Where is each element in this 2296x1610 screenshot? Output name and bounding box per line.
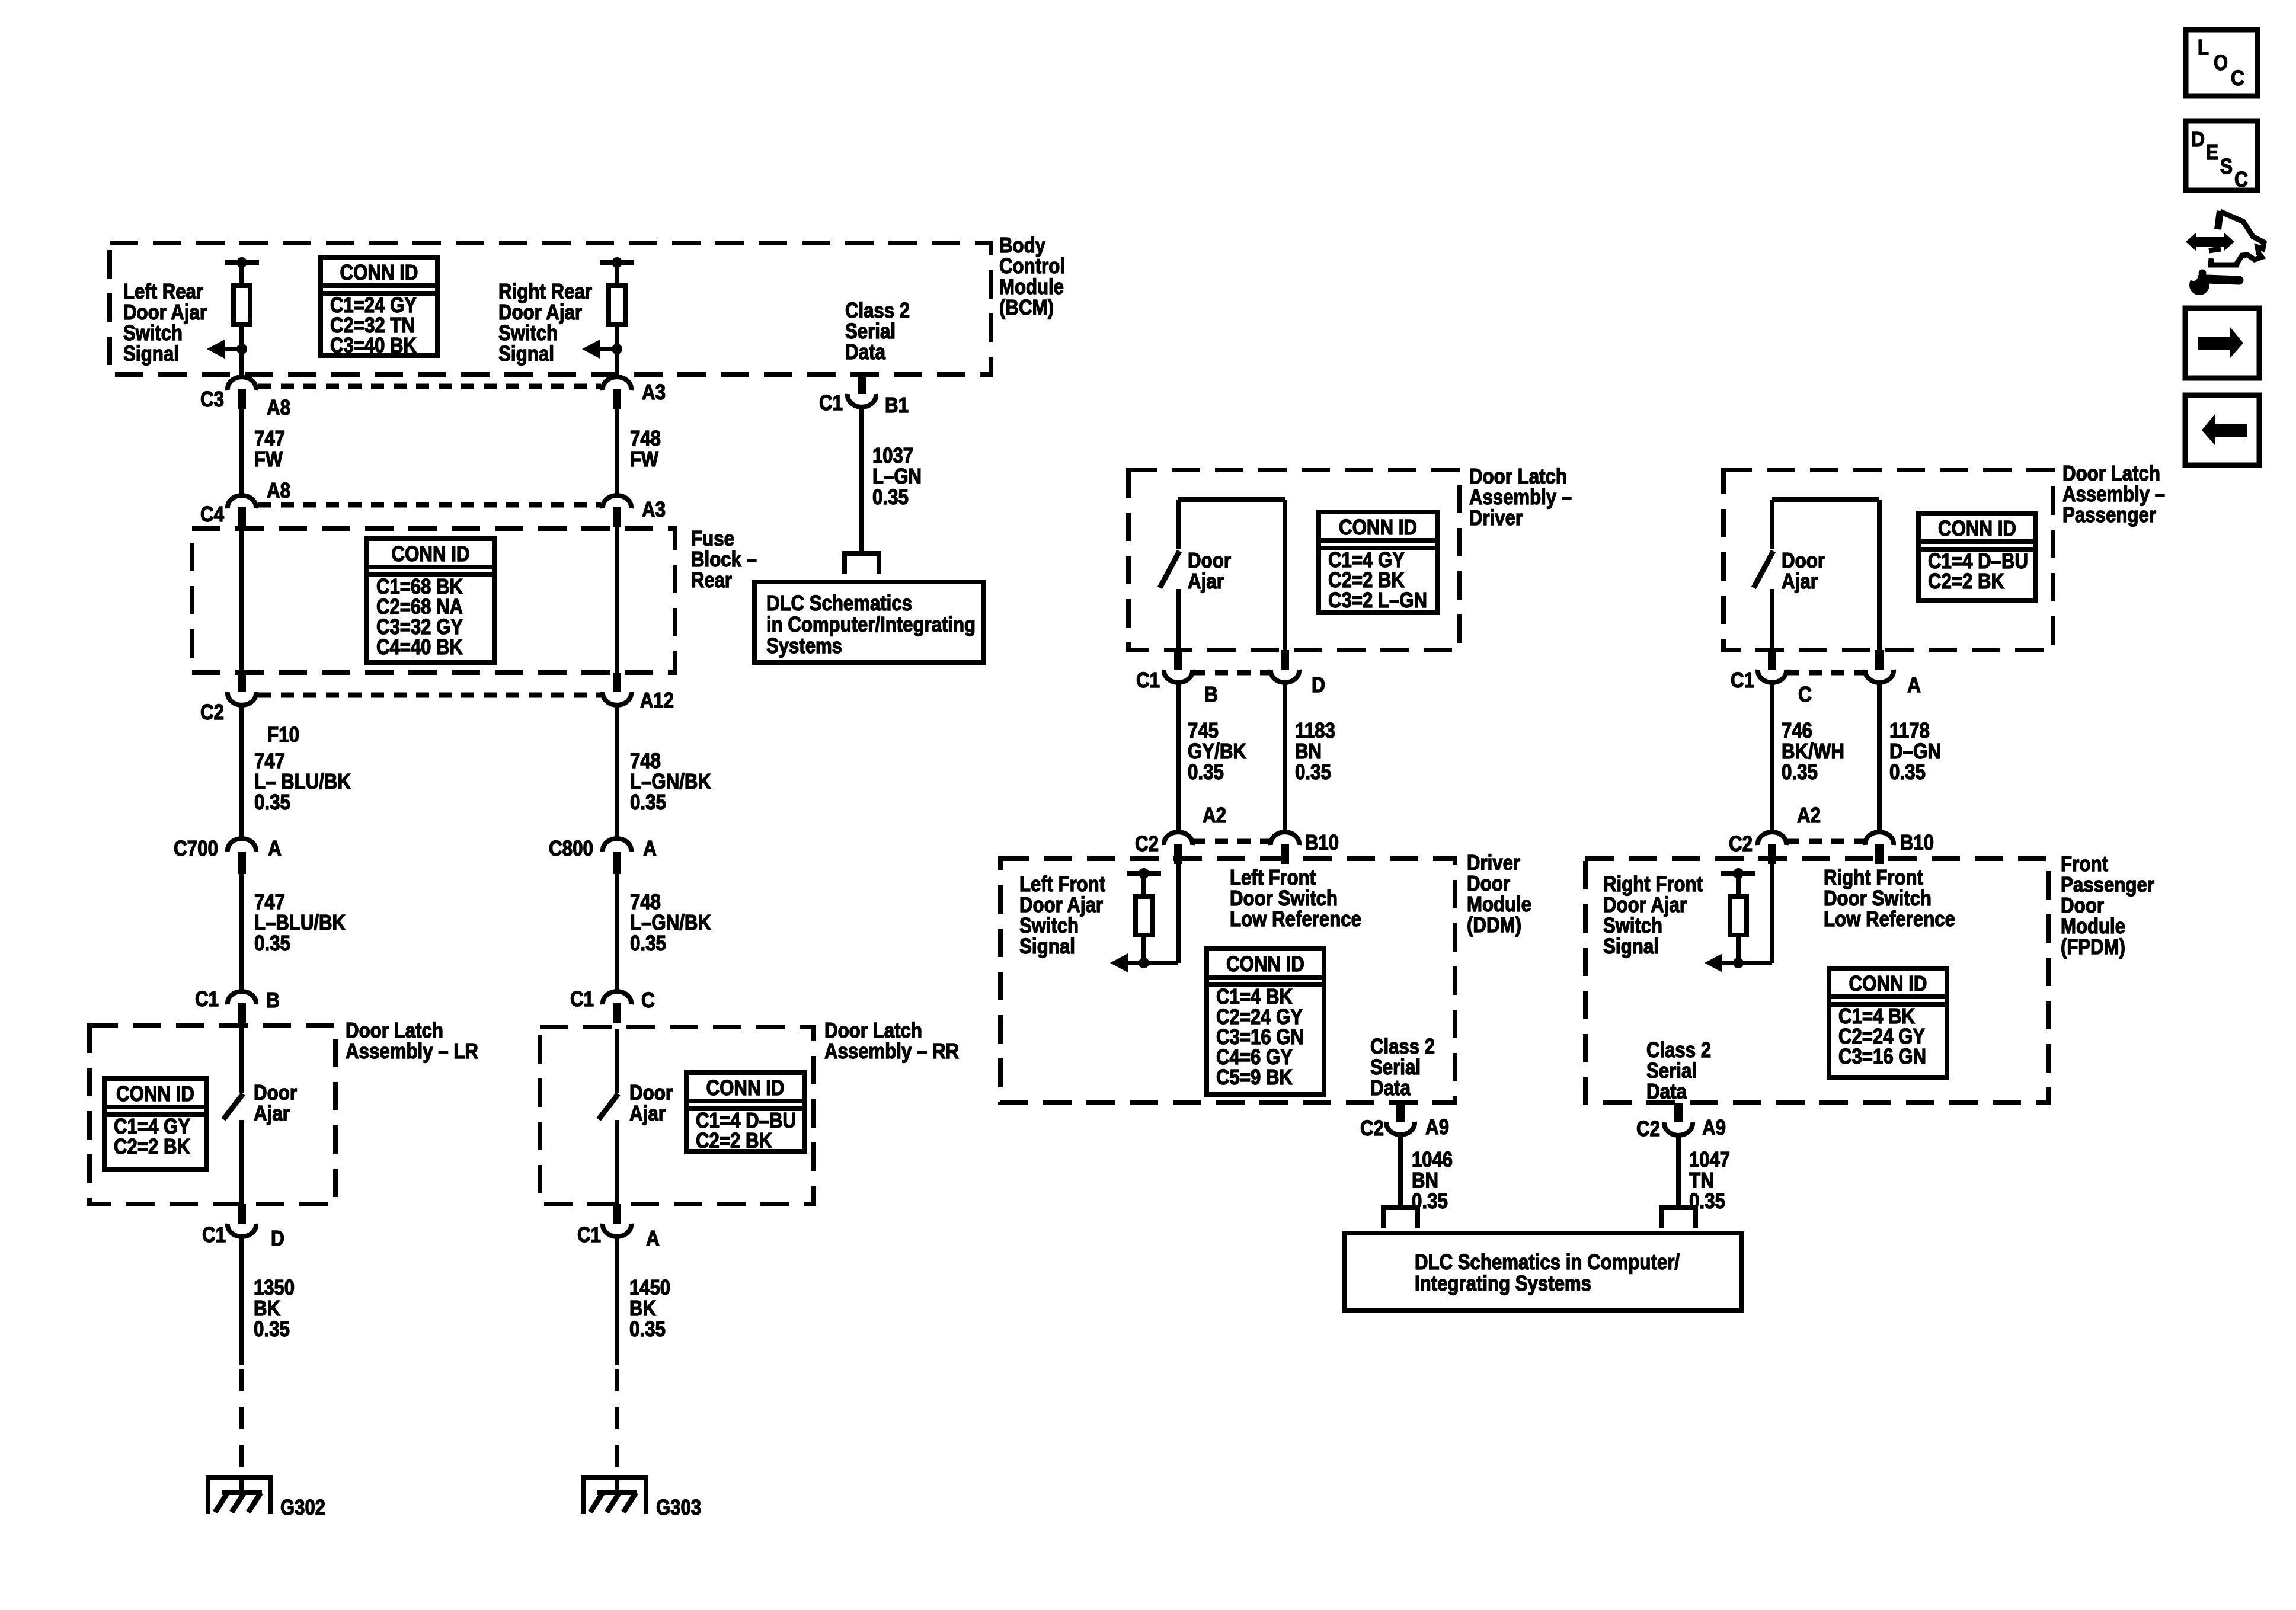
svg-text:CONN ID: CONN ID [392, 542, 470, 566]
pin label A (C700) [268, 836, 282, 860]
svg-text:Signal: Signal [1019, 934, 1075, 958]
svg-text:Assembly – LR: Assembly – LR [346, 1039, 478, 1063]
wire label 748 L-GN/BK 0.35 upper [630, 748, 711, 814]
pin label C2 (DDM class 2) [1360, 1116, 1384, 1140]
svg-text:C700: C700 [174, 836, 218, 860]
connector interface line latch driver C1 [1192, 670, 1271, 676]
connector interface line latch passenger C1 [1786, 670, 1865, 676]
pin label C2 (DDM) [1135, 831, 1159, 856]
svg-text:Low Reference: Low Reference [1824, 907, 1955, 931]
wire through fuse block left F10 [239, 527, 244, 673]
svg-text:C2: C2 [1636, 1116, 1660, 1141]
label Door Ajar (driver) [1188, 548, 1231, 593]
connector pin B10 (FPDM) [1865, 832, 1894, 864]
svg-text:A3: A3 [642, 380, 666, 404]
label Class 2 Serial Data (BCM) [845, 298, 910, 364]
svg-text:C3: C3 [200, 387, 224, 411]
resistor left front door ajar switch pull-up (DDM) [1127, 868, 1161, 968]
wire 748 FW segment [615, 409, 619, 495]
pin label B10 (DDM) [1305, 830, 1339, 854]
svg-text:A2: A2 [1797, 803, 1821, 827]
wire label 1037 L-GN 0.35 [872, 443, 922, 509]
pin label C2 (FPDM class 2) [1636, 1116, 1660, 1141]
svg-text:C2=2 BK: C2=2 BK [696, 1128, 772, 1153]
pin label A9 (DDM) [1425, 1115, 1449, 1139]
connector C3 (BCM) pin A8 [228, 377, 256, 409]
module box Body Control Module (BCM) [110, 243, 991, 375]
wire DDM internal junction to main [1144, 961, 1178, 965]
pin label C1 (latch LR) [195, 987, 219, 1011]
pin label A8 (BCM C3) [267, 395, 290, 420]
wire label 1178 D-GN 0.35 [1889, 718, 1941, 784]
svg-text:0.35: 0.35 [1782, 760, 1818, 784]
pin label A (latch RR) [646, 1226, 660, 1250]
connector A12 (fuse block) [603, 673, 631, 705]
wire label 748 FW [630, 426, 661, 471]
pin label D (latch driver) [1312, 673, 1325, 697]
wire label 1046 BN 0.35 [1412, 1147, 1453, 1213]
svg-text:C1: C1 [202, 1222, 226, 1247]
pin label C1 (latch RR bottom) [577, 1222, 601, 1247]
module box Driver Door Module (DDM) [1000, 859, 1455, 1102]
pin label F10 [267, 722, 299, 747]
pin label C (latch RR) [641, 988, 655, 1012]
svg-text:C3=16 GN: C3=16 GN [1838, 1044, 1926, 1068]
svg-text:C2: C2 [1360, 1116, 1384, 1140]
svg-text:Driver: Driver [1469, 505, 1523, 530]
connector A3 (BCM) [603, 377, 631, 409]
wire 748 L-GN/BK segment upper [615, 705, 619, 838]
svg-text:A12: A12 [640, 688, 674, 712]
connector C1 (latch LR bottom) pin D [228, 1204, 256, 1237]
svg-text:DLC Schematics in Computer/: DLC Schematics in Computer/ [1415, 1250, 1680, 1274]
wire label 1350 BK 0.35 [254, 1275, 295, 1341]
wire latch driver left to switch [1176, 500, 1181, 549]
wire label 1183 BN 0.35 [1295, 718, 1335, 784]
wire 1350 BK segment [239, 1237, 244, 1365]
wire label 1450 BK 0.35 [629, 1275, 670, 1341]
wire latch passenger right to pin A [1877, 500, 1882, 650]
svg-text:C1: C1 [577, 1222, 601, 1247]
svg-text:O: O [2214, 50, 2228, 75]
svg-text:CONN ID: CONN ID [1849, 971, 1927, 996]
wire label 747 FW [254, 426, 285, 471]
pin label A9 (FPDM) [1702, 1115, 1726, 1140]
pin label B (latch LR) [266, 988, 280, 1012]
label Right Front Door Ajar Switch Signal [1603, 872, 1703, 958]
wire 1183 BN segment [1283, 683, 1287, 832]
svg-text:0.35: 0.35 [1295, 760, 1331, 784]
svg-text:B1: B1 [885, 393, 909, 417]
box DLC Schematics in Computer/Integrating Systems (right) [1345, 1233, 1742, 1310]
label Front Passenger Door Module (FPDM) [2061, 852, 2154, 959]
svg-text:Ajar: Ajar [254, 1101, 290, 1125]
svg-text:C2: C2 [1135, 831, 1159, 856]
label Door Ajar (passenger) [1782, 548, 1825, 593]
svg-text:C1: C1 [1136, 668, 1160, 692]
svg-text:Data: Data [1646, 1079, 1687, 1103]
svg-text:C800: C800 [549, 836, 593, 860]
icon DESC box [2186, 121, 2257, 191]
resistor right rear door ajar switch pull-up (BCM) [600, 257, 634, 354]
pin label D [271, 1226, 284, 1250]
svg-text:C1: C1 [819, 391, 843, 415]
svg-text:C: C [641, 988, 655, 1012]
in-line connector C700 pin A [228, 838, 256, 874]
svg-text:Rear: Rear [691, 568, 732, 592]
label Door Latch Assembly - RR [824, 1018, 959, 1063]
connector C1 (latch RR bottom) pin A [603, 1204, 631, 1237]
svg-text:Assembly – RR: Assembly – RR [824, 1039, 959, 1063]
svg-text:C1: C1 [570, 987, 594, 1011]
svg-text:FW: FW [630, 447, 658, 471]
wire latch driver internal top [1178, 497, 1285, 502]
label Fuse Block - Rear [691, 526, 757, 592]
signal arrow left rear door ajar switch signal [207, 340, 242, 359]
connector pin A (latch passenger) [1865, 650, 1894, 683]
svg-text:Ajar: Ajar [1782, 569, 1818, 593]
svg-text:A: A [646, 1226, 660, 1250]
svg-text:in Computer/Integrating: in Computer/Integrating [766, 612, 976, 636]
pin label A2 (DDM) [1203, 803, 1226, 827]
svg-text:B10: B10 [1305, 830, 1339, 854]
label Door Latch Assembly - LR [346, 1018, 478, 1063]
svg-text:A: A [643, 836, 657, 860]
wire BCM internal to pin A3 [615, 349, 619, 377]
connector C1 (latch passenger) pin C [1758, 650, 1786, 683]
wire label 1047 TN 0.35 [1689, 1147, 1730, 1213]
svg-text:0.35: 0.35 [630, 790, 666, 814]
icon right arrow box [2185, 308, 2259, 378]
wire label 746 BK/WH 0.35 [1782, 718, 1844, 784]
svg-text:F10: F10 [267, 722, 299, 747]
svg-text:DLC Schematics: DLC Schematics [766, 591, 912, 615]
wire 1178 D-GN segment [1877, 683, 1882, 832]
svg-text:C5=9 BK: C5=9 BK [1216, 1065, 1293, 1089]
svg-text:C: C [2234, 167, 2248, 191]
label Body Control Module (BCM) [999, 233, 1065, 319]
svg-text:0.35: 0.35 [254, 790, 290, 814]
table CONN ID (latch passenger) [1918, 513, 2036, 600]
connector interface line DDM C2 [1192, 839, 1271, 844]
svg-text:Integrating Systems: Integrating Systems [1415, 1271, 1591, 1295]
pin label A12 [640, 688, 674, 712]
label G303 [656, 1495, 701, 1519]
svg-text:C4: C4 [200, 502, 224, 526]
table CONN ID (latch RR) [686, 1073, 804, 1153]
connector C1 (BCM) pin B1 class 2 serial data [848, 375, 876, 407]
svg-text:CONN ID: CONN ID [1226, 952, 1304, 976]
svg-text:CONN ID: CONN ID [706, 1076, 785, 1100]
icon left arrow box [2185, 395, 2259, 465]
label Class 2 Serial Data (FPDM) [1646, 1038, 1711, 1103]
svg-text:0.35: 0.35 [254, 1317, 290, 1341]
label Right Front Door Switch Low Reference [1824, 865, 1955, 931]
pin label C3 [200, 387, 224, 411]
svg-text:(DDM): (DDM) [1467, 913, 1521, 937]
module box Door Latch Assembly - LR [89, 1025, 335, 1204]
svg-text:(FPDM): (FPDM) [2061, 934, 2125, 959]
connector pin B10 (DDM) [1271, 832, 1299, 864]
ground G303 [581, 1475, 648, 1514]
svg-text:Signal: Signal [1603, 934, 1659, 958]
svg-text:A3: A3 [642, 497, 666, 521]
switch door ajar driver [1160, 551, 1179, 588]
svg-text:0.35: 0.35 [872, 485, 909, 509]
pin label C1 (BCM class 2) [819, 391, 843, 415]
wire latch LR switch to pin D [239, 1120, 244, 1204]
connector interface line C4-A3 fuse block top [258, 502, 601, 508]
label Door Latch Assembly - Driver [1469, 464, 1572, 530]
wire 747 FW segment [239, 409, 244, 495]
label Driver Door Module (DDM) [1467, 850, 1531, 937]
svg-text:C: C [2231, 66, 2244, 90]
label Left Front Door Ajar Switch Signal [1019, 872, 1105, 958]
pin label C1 (latch passenger) [1731, 668, 1754, 692]
svg-text:C2: C2 [200, 700, 224, 724]
svg-text:C2=2 BK: C2=2 BK [114, 1134, 190, 1158]
wire FPDM internal from C2 [1770, 864, 1774, 963]
svg-text:D: D [1312, 673, 1325, 697]
svg-text:C1: C1 [195, 987, 219, 1011]
svg-text:Signal: Signal [123, 341, 179, 366]
module box Fuse Block - Rear [192, 529, 675, 673]
svg-text:A8: A8 [267, 478, 290, 502]
pin label C (latch passenger) [1798, 682, 1812, 706]
svg-text:S: S [2220, 154, 2233, 178]
svg-text:Low Reference: Low Reference [1230, 907, 1361, 931]
wire through fuse block right A12 [615, 527, 619, 673]
svg-text:Ajar: Ajar [629, 1101, 666, 1125]
wire FPDM internal junction to main [1738, 961, 1772, 965]
pin label B (latch driver) [1204, 682, 1218, 706]
pin label C4 [200, 502, 224, 526]
wire latch driver switch to pin B [1176, 589, 1181, 650]
svg-text:D: D [271, 1226, 284, 1250]
svg-text:A8: A8 [267, 395, 290, 420]
svg-text:0.35: 0.35 [254, 931, 290, 955]
pin label C1 (latch RR) [570, 987, 594, 1011]
connector interface line FPDM C2 [1786, 839, 1865, 844]
label Left Front Door Switch Low Reference [1230, 865, 1361, 931]
table CONN ID (DDM) [1207, 949, 1324, 1094]
wire 747 L-BLU/BK segment lower [239, 874, 244, 991]
svg-text:B: B [1204, 682, 1218, 706]
svg-text:C4=40 BK: C4=40 BK [376, 635, 463, 659]
svg-text:Systems: Systems [766, 633, 842, 658]
svg-text:Signal: Signal [498, 341, 554, 366]
svg-text:(BCM): (BCM) [999, 295, 1054, 319]
label Door Latch Assembly - Passenger [2062, 461, 2165, 527]
module box Door Latch Assembly - Passenger [1723, 470, 2053, 650]
pin label A3 (fuse block) [642, 497, 666, 521]
svg-text:A9: A9 [1702, 1115, 1726, 1140]
wire 747 L-BLU/BK segment upper [239, 705, 244, 838]
wire 1046 BN segment [1398, 1135, 1403, 1205]
svg-text:Data: Data [845, 340, 886, 364]
label Left Rear Door Ajar Switch Signal [123, 279, 207, 366]
wire latch RR to switch [615, 1029, 619, 1093]
label G302 [280, 1495, 325, 1519]
svg-text:B: B [266, 988, 280, 1012]
pin label A (C800) [643, 836, 657, 860]
pin label B10 (FPDM) [1900, 830, 1934, 854]
connector C4 (fuse block) pin A8 [228, 495, 256, 527]
svg-text:C2=2 BK: C2=2 BK [1928, 569, 2004, 593]
module box Door Latch Assembly - RR [540, 1027, 814, 1204]
svg-text:CONN ID: CONN ID [340, 260, 418, 284]
svg-text:D: D [2191, 127, 2205, 151]
connector C1 (door latch RR) pin C [603, 991, 631, 1023]
svg-text:G303: G303 [656, 1495, 701, 1519]
connector interface line C2-A12 fuse block bottom [258, 693, 601, 698]
pin label C700 [174, 836, 218, 860]
icon vehicle with wrench [2180, 211, 2264, 295]
wire label 747 L-BLU/BK 0.35 lower [254, 889, 346, 955]
box DLC Schematics in Computer/Integrating Systems (left) [754, 582, 984, 662]
pin label A3 (BCM) [642, 380, 666, 404]
svg-text:C1: C1 [1731, 668, 1754, 692]
wire 748 L-GN/BK segment lower [615, 874, 619, 991]
off-page connector to DLC schematics (DDM) [1381, 1205, 1420, 1228]
table CONN ID (FPDM) [1829, 968, 1947, 1077]
label Right Rear Door Ajar Switch Signal [498, 279, 592, 366]
wire label 747 L-BLU/BK 0.35 upper [254, 748, 351, 814]
connector C2 (DDM) pin A2 [1164, 832, 1192, 864]
wire 745 GY/BK segment [1176, 683, 1181, 832]
pin label C1 (latch driver) [1136, 668, 1160, 692]
svg-text:0.35: 0.35 [629, 1317, 666, 1341]
switch door ajar RR [599, 1094, 618, 1119]
svg-text:CONN ID: CONN ID [116, 1081, 194, 1106]
svg-text:A: A [1907, 673, 1921, 697]
svg-text:CONN ID: CONN ID [1339, 515, 1417, 539]
svg-text:Passenger: Passenger [2062, 502, 2156, 527]
svg-text:C: C [1798, 682, 1812, 706]
wire latch driver right to pin D [1283, 500, 1287, 650]
label Class 2 Serial Data (DDM) [1370, 1034, 1435, 1100]
wire latch passenger left to switch [1770, 500, 1774, 549]
svg-text:A: A [268, 836, 282, 860]
svg-text:FW: FW [254, 447, 283, 471]
svg-text:0.35: 0.35 [630, 931, 666, 955]
svg-text:E: E [2206, 140, 2218, 164]
pin label C800 [549, 836, 593, 860]
svg-text:L: L [2198, 35, 2209, 59]
table CONN ID (fuse block) [367, 539, 494, 662]
svg-text:C3=2 L–GN: C3=2 L–GN [1328, 588, 1427, 612]
wire dashed to ground G303 [615, 1369, 619, 1477]
pin label B1 [885, 393, 909, 417]
signal arrow right front door ajar switch signal [1705, 953, 1738, 972]
svg-text:A9: A9 [1425, 1115, 1449, 1139]
resistor right front door ajar switch pull-up (FPDM) [1721, 868, 1755, 968]
connector C1 (door latch LR) pin B [228, 991, 256, 1023]
module box Front Passenger Door Module (FPDM) [1585, 859, 2049, 1103]
svg-text:Data: Data [1370, 1076, 1411, 1100]
switch door ajar LR [223, 1094, 243, 1119]
pin label C2 (FPDM) [1729, 831, 1753, 856]
table CONN ID (latch LR) [104, 1078, 206, 1169]
wire dashed to ground G302 [239, 1369, 244, 1477]
svg-text:0.35: 0.35 [1188, 760, 1224, 784]
svg-text:B10: B10 [1900, 830, 1934, 854]
table CONN ID (BCM) [321, 257, 437, 357]
svg-text:C3=40 BK: C3=40 BK [330, 333, 417, 357]
wire latch RR switch to pin A [615, 1120, 619, 1204]
off-page connector to DLC schematics (FPDM) [1659, 1205, 1698, 1228]
wire BCM internal to pin C3 [239, 349, 244, 377]
wire DDM internal from C2 [1176, 864, 1181, 963]
wire latch passenger internal top [1772, 497, 1879, 502]
svg-text:G302: G302 [280, 1495, 325, 1519]
table CONN ID (latch driver) [1319, 512, 1437, 613]
label Door Ajar (LR) [254, 1080, 297, 1125]
in-line connector C800 pin A [603, 838, 631, 874]
label Door Ajar (RR) [629, 1080, 673, 1125]
connector C2 (FPDM) pin A9 class 2 [1664, 1103, 1693, 1135]
signal arrow right rear door ajar switch signal [582, 340, 617, 359]
wire 1047 TN segment [1676, 1135, 1681, 1205]
wire 1037 L-GN segment [859, 407, 864, 551]
off-page connector to DLC schematics (BCM) [842, 551, 881, 574]
connector A3 (fuse block) [603, 495, 631, 527]
pin label A8 (fuse block C4) [267, 478, 290, 502]
connector C2 (fuse block) terminal F10 [228, 673, 256, 705]
pin label A2 (FPDM) [1797, 803, 1821, 827]
ground G302 [206, 1475, 273, 1514]
wire latch passenger switch to pin C [1770, 589, 1774, 650]
pin label A (latch passenger) [1907, 673, 1921, 697]
switch door ajar passenger [1754, 551, 1773, 588]
wire latch LR to switch [239, 1027, 244, 1093]
wire 1450 BK segment [615, 1237, 619, 1365]
wire label 748 L-GN/BK 0.35 lower [630, 889, 711, 955]
connector pin D (latch driver) [1271, 650, 1299, 683]
resistor left rear door ajar switch pull-up (BCM) [225, 257, 259, 354]
svg-text:C2: C2 [1729, 831, 1753, 856]
signal arrow left front door ajar switch signal [1110, 953, 1144, 972]
svg-text:CONN ID: CONN ID [1938, 516, 2016, 540]
connector C2 (DDM) pin A9 class 2 [1386, 1102, 1415, 1135]
connector C1 (latch driver) pin B [1164, 650, 1192, 683]
svg-text:Ajar: Ajar [1188, 569, 1224, 593]
connector interface line BCM C3-A3 [258, 384, 601, 389]
svg-text:A2: A2 [1203, 803, 1226, 827]
svg-text:0.35: 0.35 [1889, 760, 1926, 784]
wire label 745 GY/BK 0.35 [1188, 718, 1246, 784]
pin label C1 (latch LR bottom) [202, 1222, 226, 1247]
module box Door Latch Assembly - Driver [1128, 470, 1460, 650]
icon LOC box [2186, 30, 2257, 96]
connector C2 (FPDM) pin A2 [1758, 832, 1786, 864]
wire 746 BK/WH segment [1770, 683, 1774, 832]
pin label C2 (fuse block) [200, 700, 224, 724]
